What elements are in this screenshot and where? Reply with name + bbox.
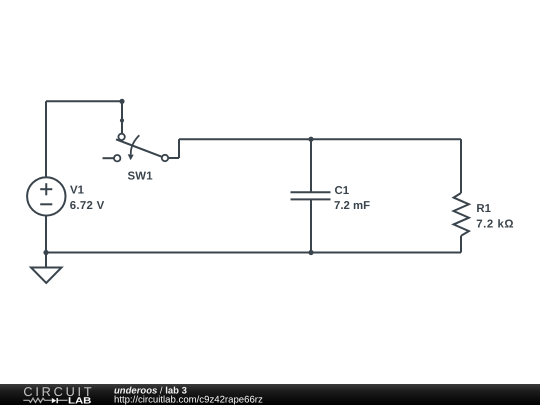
capacitor C1 [291, 192, 331, 199]
svg-text:7.2 mF: 7.2 mF [334, 200, 370, 212]
switch SW1 left throw terminal [114, 155, 120, 161]
wire ground lead [45, 253, 47, 268]
svg-text:R1: R1 [476, 203, 491, 215]
V1 plus sign [40, 183, 52, 204]
svg-text:SW1: SW1 [128, 171, 154, 183]
wire V1 bottom lead [45, 216, 47, 253]
wire switch left throw stub [103, 157, 114, 159]
wire top rail [179, 138, 461, 140]
switch SW1 arm [116, 139, 162, 156]
node junction C1 top [308, 137, 313, 142]
svg-text:C1: C1 [335, 185, 350, 197]
node junction C1 bottom [308, 250, 313, 255]
wire R1 top lead [460, 139, 462, 193]
wire C1 bottom lead [310, 200, 312, 253]
svg-text:7.2 kΩ: 7.2 kΩ [476, 218, 514, 230]
svg-text:LAB: LAB [68, 396, 92, 405]
V1 minus sign [40, 203, 52, 205]
wire left vertical to V1 [45, 101, 47, 177]
node small dot on switch lead [120, 118, 124, 122]
node junction ground [43, 250, 48, 255]
wire switch top lead [121, 101, 123, 133]
logo diode [52, 398, 56, 403]
voltage source V1 [27, 177, 65, 215]
wire switch right throw horizontal [169, 157, 179, 159]
switch SW1 action arc [131, 135, 140, 154]
ground [31, 268, 62, 284]
wire switch right riser [178, 139, 180, 158]
svg-text:6.72 V: 6.72 V [70, 200, 105, 212]
svg-text:V1: V1 [70, 184, 85, 196]
wire bottom rail [46, 252, 461, 254]
logo wire squiggle [23, 398, 51, 402]
node junction top of switch [119, 99, 124, 104]
resistor R1 [454, 193, 469, 236]
switch SW1 right throw terminal [162, 155, 168, 161]
switch SW1 arrowhead [128, 154, 134, 160]
switch SW1 common terminal [118, 134, 124, 140]
wire C1 top lead [310, 139, 312, 192]
footer bar [0, 384, 540, 405]
wire top-left horizontal [46, 100, 122, 102]
wire R1 bottom lead [460, 236, 462, 253]
svg-text:http://circuitlab.com/c9z42rap: http://circuitlab.com/c9z42rape66rz [114, 394, 263, 405]
